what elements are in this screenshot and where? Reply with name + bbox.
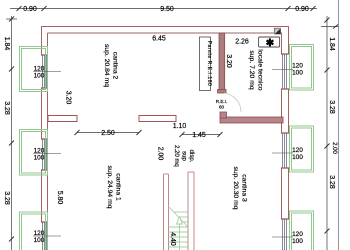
svg-text:100: 100	[34, 237, 45, 244]
svg-text:120: 120	[34, 66, 45, 73]
svg-text:sup. 20.30 mq: sup. 20.30 mq	[232, 166, 239, 209]
svg-text:Parete R.E.I.180: Parete R.E.I.180	[206, 41, 212, 87]
svg-text:120: 120	[292, 63, 303, 70]
svg-text:0.90: 0.90	[23, 6, 37, 13]
svg-text:6.45: 6.45	[152, 36, 166, 43]
svg-text:5.80: 5.80	[56, 191, 63, 205]
svg-text:100: 100	[292, 154, 303, 161]
svg-text:✱: ✱	[266, 38, 275, 49]
svg-text:3.28: 3.28	[3, 191, 10, 205]
svg-text:cantina 1: cantina 1	[115, 173, 122, 201]
svg-text:2.26: 2.26	[235, 39, 249, 46]
svg-text:2.00: 2.00	[331, 142, 337, 154]
svg-text:2.50: 2.50	[101, 130, 115, 137]
svg-text:1.45: 1.45	[192, 132, 206, 139]
svg-text:4.40: 4.40	[169, 232, 176, 246]
svg-text:sup. 24.94 mq: sup. 24.94 mq	[106, 165, 113, 208]
svg-text:locale tecnico: locale tecnico	[257, 49, 264, 90]
svg-text:100: 100	[292, 70, 303, 77]
svg-text:120: 120	[34, 230, 45, 237]
svg-text:100: 100	[292, 238, 303, 245]
svg-text:sup. 7.20 mq: sup. 7.20 mq	[248, 50, 255, 90]
svg-text:3.28: 3.28	[328, 100, 335, 114]
svg-text:120: 120	[292, 231, 303, 238]
svg-text:60: 60	[219, 105, 225, 110]
svg-text:1.84: 1.84	[328, 37, 335, 51]
svg-text:120: 120	[292, 147, 303, 154]
svg-text:disp.: disp.	[188, 150, 194, 163]
svg-text:120: 120	[34, 148, 45, 155]
svg-text:2.20 mq: 2.20 mq	[173, 145, 179, 167]
svg-text:100: 100	[34, 73, 45, 80]
svg-text:3.20: 3.20	[65, 91, 72, 105]
svg-text:R.E.I.: R.E.I.	[216, 99, 228, 104]
svg-text:3.20: 3.20	[225, 54, 232, 68]
svg-text:9.50: 9.50	[160, 6, 174, 13]
svg-text:cantina 2: cantina 2	[112, 52, 119, 80]
svg-text:3.28: 3.28	[3, 101, 10, 115]
svg-text:sup. 20.84 mq: sup. 20.84 mq	[103, 44, 110, 87]
svg-text:0.90: 0.90	[295, 6, 309, 13]
svg-text:1.10: 1.10	[173, 123, 187, 130]
svg-text:3.28: 3.28	[328, 175, 335, 189]
svg-text:100: 100	[34, 155, 45, 162]
svg-text:sup: sup	[181, 151, 187, 161]
svg-text:2.00: 2.00	[157, 147, 164, 161]
svg-text:cantina 3: cantina 3	[241, 174, 248, 202]
svg-text:1.84: 1.84	[3, 37, 10, 51]
